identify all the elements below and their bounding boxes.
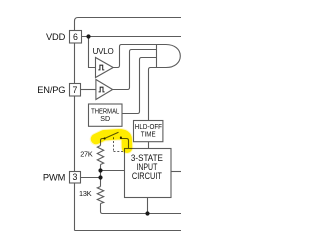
svg-text:EN/PG: EN/PG — [37, 85, 65, 95]
switch pivot dot — [104, 137, 106, 139]
wire 3-state box bottom to common rail — [147, 198, 149, 214]
wire UVLO comparator output to AND gate input 1 — [113, 45, 156, 68]
wire comparator U2 output to AND gate input 2 — [113, 50, 157, 90]
wire 27K top to switch — [101, 139, 105, 146]
svg-text:UVLO: UVLO — [93, 47, 114, 56]
wire VDD junction down to UVLO comparator input — [89, 37, 96, 68]
svg-text:VDD: VDD — [46, 32, 66, 42]
comparator U2 (EN/PG, with hysteresis) — [96, 80, 113, 100]
resistor 13K — [97, 187, 103, 204]
svg-text:6: 6 — [73, 32, 78, 42]
wire common rail — [101, 212, 182, 214]
dashed control link from 3-state circuit to switch — [114, 137, 125, 151]
junction dot divider node to 3-state input — [98, 168, 102, 172]
IC boundary top edge — [75, 18, 182, 22]
svg-text:SD: SD — [100, 115, 110, 123]
svg-text:27K: 27K — [80, 150, 93, 159]
pin box 6 (VDD) — [70, 31, 82, 44]
wire 3-state box output to right edge — [171, 171, 181, 173]
AND gate U3 — [157, 45, 181, 68]
IC boundary bottom edge — [75, 230, 182, 232]
wire 13K bottom to rail corner — [100, 204, 102, 212]
switch right contact to 3-state box — [121, 136, 129, 148]
wire divider node to 3-state box input — [101, 170, 125, 172]
junction dot PWM node — [98, 175, 102, 179]
wire PWM pin 3 to divider node — [81, 177, 101, 179]
wire VDD rail from pin 6 to right edge — [82, 36, 182, 38]
pin box 7 (EN/PG) — [70, 84, 81, 97]
svg-text:13K: 13K — [79, 189, 92, 198]
THERMAL SD block — [89, 104, 123, 126]
svg-text:CIRCUIT: CIRCUIT — [132, 171, 162, 182]
IC boundary left edge — [74, 21, 76, 231]
junction dot rail node — [145, 211, 149, 215]
hysteresis symbol U2 — [99, 87, 105, 92]
highlighter mark (yellow) over hold-off switch — [96, 134, 127, 148]
resistor 27K — [97, 146, 103, 165]
hysteresis symbol U1 — [98, 65, 104, 70]
junction dot VDD node — [86, 34, 90, 38]
wire THERMAL SD output to AND gate input 3 — [122, 58, 157, 114]
comparator U1 (UVLO, with hysteresis) — [96, 58, 114, 78]
wire HLD-OFF TIME top to AND gate input 4 — [149, 68, 157, 121]
wire EN/PG pin 7 to comparator U2 input — [81, 89, 96, 91]
svg-text:3: 3 — [72, 172, 77, 182]
switch lever S1 — [105, 132, 119, 138]
pin box 3 (PWM) — [70, 172, 81, 184]
wire HLD-OFF TIME bottom to 3-state box top — [148, 142, 150, 149]
svg-text:TIME: TIME — [141, 129, 156, 138]
switch contact dot — [120, 137, 122, 139]
HLD-OFF TIME block — [134, 121, 163, 142]
svg-text:PWM: PWM — [43, 172, 65, 182]
3-STATE INPUT CIRCUIT block — [125, 149, 172, 198]
wire resistor chain 27K bottom to 13K top — [100, 165, 102, 187]
svg-text:7: 7 — [72, 85, 77, 95]
